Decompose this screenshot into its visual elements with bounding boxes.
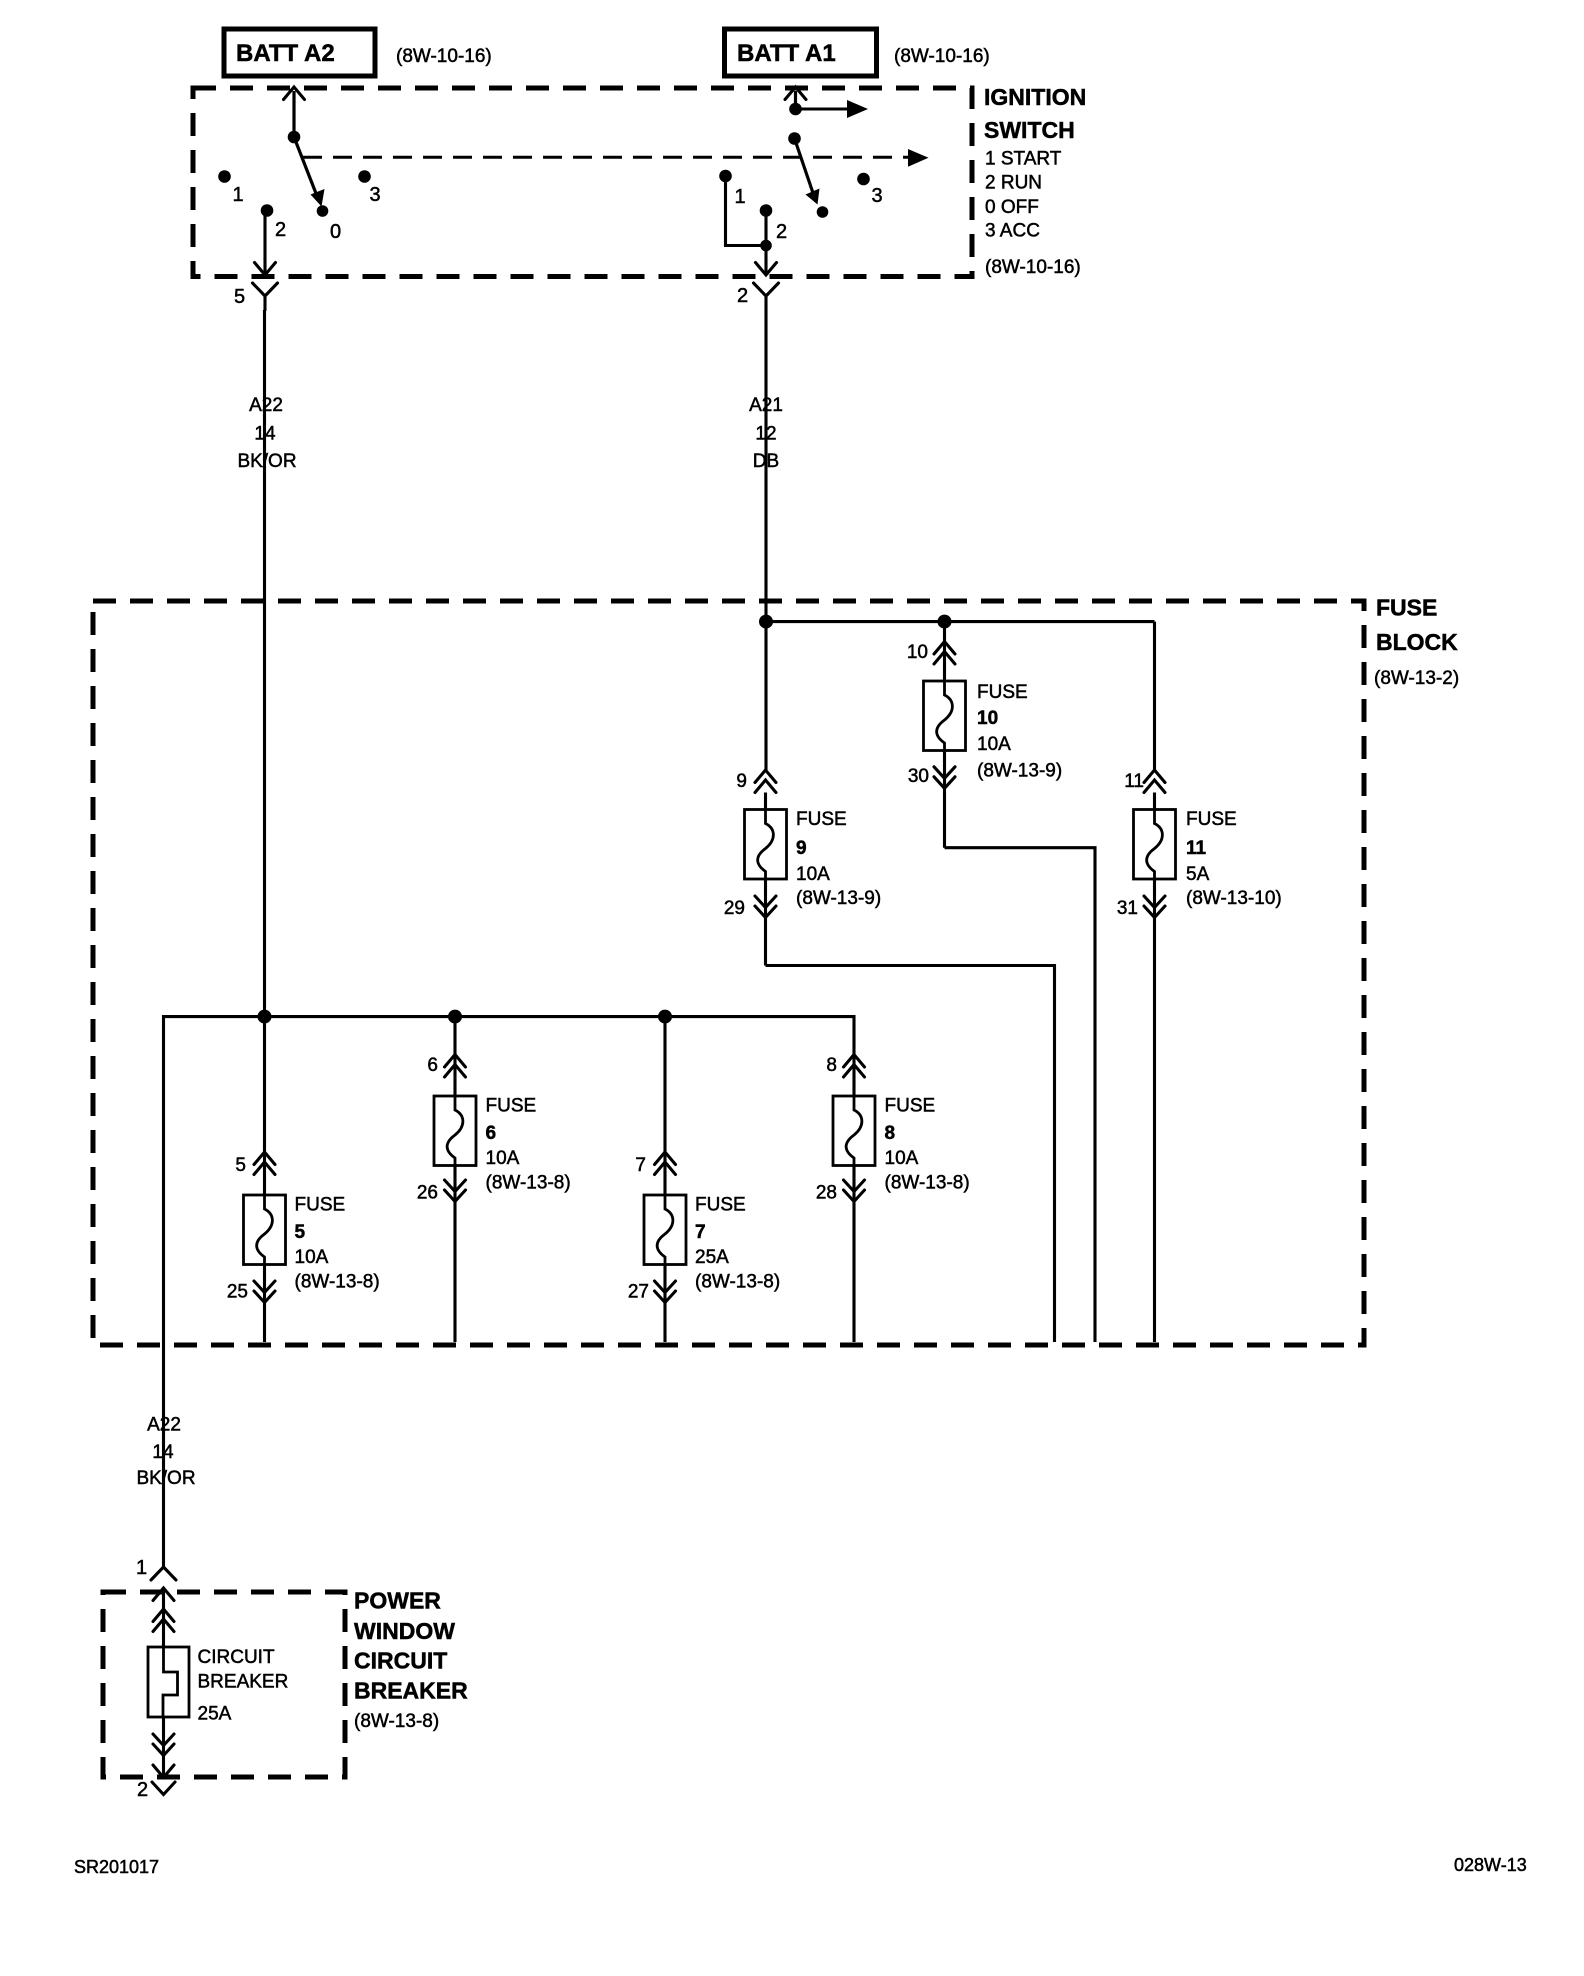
svg-text:1: 1 bbox=[735, 186, 746, 208]
svg-text:5: 5 bbox=[235, 1155, 246, 1176]
svg-text:FUSE: FUSE bbox=[796, 809, 847, 830]
svg-text:11: 11 bbox=[1186, 838, 1207, 859]
svg-text:SWITCH: SWITCH bbox=[984, 117, 1075, 143]
svg-text:A21: A21 bbox=[749, 395, 783, 416]
svg-text:FUSE: FUSE bbox=[977, 682, 1028, 703]
svg-text:30: 30 bbox=[908, 766, 929, 787]
svg-text:10A: 10A bbox=[885, 1148, 919, 1169]
svg-text:A22: A22 bbox=[147, 1415, 181, 1436]
svg-text:29: 29 bbox=[724, 898, 745, 919]
svg-text:14: 14 bbox=[152, 1442, 174, 1463]
svg-text:FUSE: FUSE bbox=[295, 1195, 346, 1216]
svg-text:(8W-13-8): (8W-13-8) bbox=[885, 1173, 970, 1194]
svg-text:FUSE: FUSE bbox=[486, 1096, 537, 1117]
svg-text:9: 9 bbox=[736, 771, 747, 792]
svg-text:BLOCK: BLOCK bbox=[1376, 629, 1458, 655]
svg-text:8: 8 bbox=[885, 1123, 896, 1144]
svg-text:10: 10 bbox=[907, 642, 928, 663]
svg-text:25: 25 bbox=[227, 1282, 248, 1303]
svg-text:IGNITION: IGNITION bbox=[984, 84, 1086, 110]
svg-text:9: 9 bbox=[796, 838, 807, 859]
svg-text:1: 1 bbox=[233, 184, 244, 206]
svg-text:0 OFF: 0 OFF bbox=[985, 197, 1039, 218]
svg-text:(8W-10-16): (8W-10-16) bbox=[985, 257, 1081, 278]
svg-text:25A: 25A bbox=[695, 1247, 729, 1268]
svg-text:3: 3 bbox=[370, 184, 381, 206]
svg-text:POWER: POWER bbox=[354, 1588, 441, 1614]
svg-text:2: 2 bbox=[275, 219, 286, 241]
svg-text:028W-13: 028W-13 bbox=[1454, 1855, 1527, 1875]
svg-text:3 ACC: 3 ACC bbox=[985, 221, 1040, 242]
svg-text:(8W-13-10): (8W-13-10) bbox=[1186, 888, 1282, 909]
svg-text:25A: 25A bbox=[198, 1704, 232, 1725]
svg-text:28: 28 bbox=[816, 1183, 837, 1204]
svg-text:14: 14 bbox=[254, 424, 276, 445]
svg-text:A22: A22 bbox=[249, 395, 283, 416]
svg-text:2: 2 bbox=[737, 285, 748, 307]
svg-text:6: 6 bbox=[486, 1123, 497, 1144]
svg-text:BK/OR: BK/OR bbox=[237, 451, 296, 472]
svg-text:(8W-10-16): (8W-10-16) bbox=[396, 46, 492, 67]
svg-text:10A: 10A bbox=[796, 864, 830, 885]
svg-text:2: 2 bbox=[776, 221, 787, 243]
svg-text:SR201017: SR201017 bbox=[74, 1857, 159, 1877]
svg-text:(8W-13-8): (8W-13-8) bbox=[486, 1173, 571, 1194]
svg-text:27: 27 bbox=[628, 1282, 649, 1303]
svg-text:3: 3 bbox=[872, 185, 883, 207]
svg-text:BREAKER: BREAKER bbox=[198, 1672, 289, 1693]
svg-text:7: 7 bbox=[635, 1155, 646, 1176]
svg-text:CIRCUIT: CIRCUIT bbox=[198, 1647, 275, 1668]
svg-text:(8W-13-8): (8W-13-8) bbox=[354, 1711, 439, 1732]
svg-text:10: 10 bbox=[977, 708, 998, 729]
svg-text:FUSE: FUSE bbox=[885, 1096, 936, 1117]
svg-text:(8W-13-9): (8W-13-9) bbox=[796, 888, 881, 909]
svg-text:BATT A2: BATT A2 bbox=[236, 40, 335, 67]
svg-text:7: 7 bbox=[695, 1222, 706, 1243]
svg-text:(8W-13-2): (8W-13-2) bbox=[1374, 668, 1459, 689]
svg-text:BK/OR: BK/OR bbox=[136, 1468, 195, 1489]
svg-text:26: 26 bbox=[417, 1183, 438, 1204]
svg-text:1: 1 bbox=[136, 1557, 147, 1579]
svg-text:CIRCUIT: CIRCUIT bbox=[354, 1648, 447, 1674]
svg-text:0: 0 bbox=[330, 221, 341, 243]
svg-text:(8W-13-9): (8W-13-9) bbox=[977, 761, 1062, 782]
svg-text:(8W-10-16): (8W-10-16) bbox=[894, 46, 990, 67]
svg-text:5: 5 bbox=[234, 286, 245, 308]
svg-text:(8W-13-8): (8W-13-8) bbox=[695, 1272, 780, 1293]
svg-text:2: 2 bbox=[137, 1779, 148, 1801]
svg-text:FUSE: FUSE bbox=[1376, 595, 1437, 621]
svg-text:10A: 10A bbox=[295, 1247, 329, 1268]
svg-text:(8W-13-8): (8W-13-8) bbox=[295, 1272, 380, 1293]
svg-text:5A: 5A bbox=[1186, 864, 1210, 885]
svg-text:5: 5 bbox=[295, 1222, 306, 1243]
svg-text:31: 31 bbox=[1117, 898, 1138, 919]
svg-text:2 RUN: 2 RUN bbox=[985, 173, 1042, 194]
svg-text:FUSE: FUSE bbox=[1186, 809, 1237, 830]
svg-text:11: 11 bbox=[1124, 771, 1144, 792]
svg-text:WINDOW: WINDOW bbox=[354, 1618, 455, 1644]
svg-text:FUSE: FUSE bbox=[695, 1195, 746, 1216]
svg-text:BATT A1: BATT A1 bbox=[737, 40, 836, 67]
svg-text:10A: 10A bbox=[486, 1148, 520, 1169]
svg-text:BREAKER: BREAKER bbox=[354, 1678, 468, 1704]
svg-text:8: 8 bbox=[826, 1055, 837, 1076]
svg-text:12: 12 bbox=[755, 424, 776, 445]
svg-text:10A: 10A bbox=[977, 734, 1011, 755]
svg-text:6: 6 bbox=[427, 1055, 438, 1076]
svg-text:DB: DB bbox=[753, 451, 779, 472]
svg-text:1 START: 1 START bbox=[985, 149, 1062, 170]
